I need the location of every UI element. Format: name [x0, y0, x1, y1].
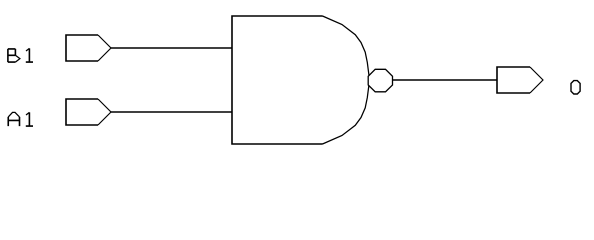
wire bubble to output port — [393, 79, 498, 81]
NAND gate U1 body — [232, 16, 370, 144]
label O — [571, 81, 580, 94]
output port O — [497, 67, 543, 93]
input port B1 — [66, 35, 111, 61]
label B1 — [8, 48, 33, 62]
wire A1 to gate — [111, 111, 232, 113]
inversion bubble — [368, 69, 392, 92]
wire B1 to gate — [111, 47, 232, 49]
input port A1 — [66, 99, 111, 125]
label A1 — [8, 112, 33, 126]
